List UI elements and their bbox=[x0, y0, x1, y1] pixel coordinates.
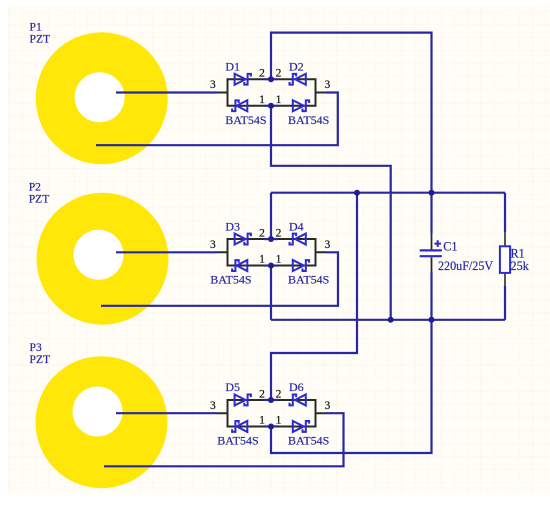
capacitor C1 220uF/25V bbox=[420, 233, 442, 272]
wire R1 bottom to bottom bus bbox=[504, 286, 506, 320]
svg-text:D6: D6 bbox=[289, 380, 304, 394]
wire section1 pin2 top rail to bus bbox=[271, 33, 432, 193]
junction bus / section3 feed bbox=[354, 190, 360, 196]
junction bottom bus / C1 bottom bbox=[429, 317, 435, 323]
wire P1 bottom pin to D2 pin3 bbox=[96, 93, 338, 146]
svg-text:2: 2 bbox=[276, 68, 282, 80]
piezo transducer P1 (PZT disc) bbox=[36, 32, 168, 164]
junction D3/D4 pin2 bbox=[268, 236, 274, 242]
svg-text:D4: D4 bbox=[289, 219, 304, 233]
svg-text:PZT: PZT bbox=[30, 33, 51, 46]
svg-text:3: 3 bbox=[325, 239, 331, 251]
wire bus to C1 top bbox=[430, 193, 432, 234]
junction D1/D2 pin1 bbox=[268, 103, 274, 109]
svg-text:BAT54S: BAT54S bbox=[288, 113, 329, 127]
junction bottom bus / section1 pin1 bbox=[388, 317, 394, 323]
svg-text:BAT54S: BAT54S bbox=[225, 113, 266, 127]
label P2 PZT bbox=[29, 180, 50, 205]
svg-text:2: 2 bbox=[276, 388, 282, 400]
svg-text:D5: D5 bbox=[225, 380, 240, 394]
wire P2 bottom pin to D4 pin3 bbox=[101, 252, 338, 305]
svg-text:3: 3 bbox=[325, 400, 331, 412]
dual schottky diode D1 (BAT54S) bbox=[217, 74, 264, 112]
dual schottky diode D6 (BAT54S) bbox=[278, 394, 326, 432]
dual schottky diode D4 (BAT54S) bbox=[278, 234, 326, 271]
junction bus / C1 top bbox=[429, 190, 435, 196]
svg-text:BAT54S: BAT54S bbox=[217, 433, 258, 447]
wire D1-D2 pin1 junction segment bbox=[264, 105, 278, 107]
svg-text:25k: 25k bbox=[511, 259, 530, 273]
svg-text:2: 2 bbox=[276, 227, 282, 239]
junction D3/D4 pin1 bbox=[268, 263, 274, 269]
svg-text:PZT: PZT bbox=[29, 192, 50, 205]
dual schottky diode D5 (BAT54S) bbox=[217, 394, 264, 432]
svg-text:220uF/25V: 220uF/25V bbox=[438, 259, 493, 273]
svg-text:1: 1 bbox=[259, 94, 265, 106]
wire bottom bus bbox=[271, 319, 505, 321]
wire bus to R1 top bbox=[504, 193, 506, 233]
svg-text:1: 1 bbox=[259, 254, 265, 266]
label P3 PZT bbox=[30, 341, 51, 366]
svg-text:D1: D1 bbox=[225, 59, 240, 73]
wire D5-D6 pin2 junction segment bbox=[264, 399, 278, 401]
svg-text:1: 1 bbox=[276, 94, 282, 106]
dual schottky diode D3 (BAT54S) bbox=[217, 234, 264, 271]
wire section2 pin2 up to bus bbox=[270, 193, 272, 239]
svg-text:BAT54S: BAT54S bbox=[210, 273, 251, 287]
junction D1/D2 pin2 bbox=[268, 76, 274, 82]
svg-text:D2: D2 bbox=[289, 59, 304, 73]
wire section3 pin1 to bottom bus bbox=[271, 320, 432, 453]
pin numbers D5/D6 bbox=[210, 388, 331, 426]
wire section1 pin1 to bottom bus bbox=[271, 106, 391, 320]
svg-text:3: 3 bbox=[325, 79, 331, 91]
svg-text:2: 2 bbox=[259, 68, 265, 80]
wire P1 top pin to D1 pin3 bbox=[116, 91, 217, 93]
wire P3 bottom pin to D6 pin3 bbox=[104, 413, 344, 466]
svg-text:D3: D3 bbox=[225, 219, 240, 233]
svg-text:1: 1 bbox=[276, 415, 282, 427]
svg-text:1: 1 bbox=[259, 415, 265, 427]
svg-text:3: 3 bbox=[210, 79, 216, 91]
resistor R1 25k bbox=[500, 232, 510, 286]
wire D5-D6 pin1 junction segment bbox=[264, 425, 278, 427]
svg-text:2: 2 bbox=[259, 388, 265, 400]
svg-text:BAT54S: BAT54S bbox=[288, 433, 329, 447]
svg-text:3: 3 bbox=[210, 239, 216, 251]
svg-text:1: 1 bbox=[276, 254, 282, 266]
dual schottky diode D2 (BAT54S) bbox=[278, 74, 326, 112]
wire D3-D4 pin1 junction segment bbox=[264, 264, 278, 266]
svg-text:2: 2 bbox=[259, 227, 265, 239]
svg-text:PZT: PZT bbox=[30, 353, 51, 366]
junction D5/D6 pin1 bbox=[268, 423, 274, 429]
wire D1-D2 pin2 junction segment bbox=[264, 78, 278, 80]
svg-text:BAT54S: BAT54S bbox=[288, 273, 329, 287]
wire bus down to section3 pin2 bbox=[271, 193, 357, 400]
wire P3 top pin to D5 pin3 bbox=[116, 412, 217, 414]
pin numbers D3/D4 bbox=[210, 227, 331, 265]
wire D3-D4 pin2 junction segment bbox=[264, 238, 278, 240]
piezo transducer P3 (PZT disc) bbox=[36, 356, 168, 488]
wire section2 pin1 down to bottom bus bbox=[270, 266, 272, 320]
wire C1 bottom to bottom bus bbox=[430, 272, 432, 320]
junction D5/D6 pin2 bbox=[268, 397, 274, 403]
wire positive bus bbox=[271, 192, 505, 194]
pin numbers D1/D2 bbox=[210, 68, 331, 106]
wire P2 top pin to D3 pin3 bbox=[116, 251, 217, 253]
svg-text:C1: C1 bbox=[443, 240, 457, 254]
svg-text:3: 3 bbox=[210, 400, 216, 412]
piezo transducer P2 (PZT disc) bbox=[37, 193, 169, 325]
label P1 PZT bbox=[30, 21, 51, 46]
